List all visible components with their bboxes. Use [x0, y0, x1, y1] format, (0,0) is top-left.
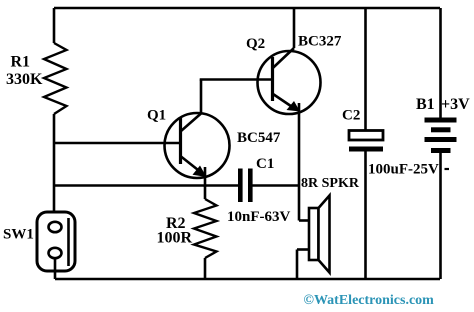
wire R1 top lead — [53, 8, 56, 43]
label BC547 — [237, 130, 281, 146]
svg-text:B1: B1 — [416, 96, 435, 113]
label R1 — [11, 54, 31, 71]
label minus — [445, 168, 450, 170]
label 8R SPKR — [301, 176, 360, 191]
svg-text:BC547: BC547 — [237, 130, 281, 146]
svg-text:Q2: Q2 — [246, 36, 265, 52]
svg-text:100uF-25V: 100uF-25V — [368, 162, 439, 178]
label 10nF-63V — [227, 209, 291, 225]
label SW1 — [3, 227, 34, 243]
svg-text:SW1: SW1 — [3, 227, 34, 243]
wire Q2 emitter up — [293, 8, 296, 48]
resistor R2 — [194, 186, 217, 280]
wire Q1 base lead — [54, 142, 180, 145]
wire emitter/R2/C1 horizontal — [54, 184, 239, 187]
svg-text:C1: C1 — [256, 156, 274, 172]
wire bottom rail — [55, 278, 440, 281]
transistor Q1 — [165, 113, 230, 178]
capacitor C2 — [349, 8, 383, 279]
svg-text:330K: 330K — [6, 71, 43, 88]
svg-text:BC327: BC327 — [298, 34, 342, 50]
wire Q2 collector down to speaker — [298, 103, 301, 221]
battery B1 — [425, 8, 457, 279]
label +3V — [441, 96, 470, 113]
svg-text:+3V: +3V — [441, 96, 470, 113]
capacitor C1 — [238, 169, 299, 203]
svg-text:8R SPKR: 8R SPKR — [301, 176, 360, 191]
label watermark — [304, 293, 435, 308]
label BC327 — [298, 34, 342, 50]
label Q2 — [246, 36, 265, 52]
wire Q1 emitter down — [204, 167, 207, 187]
svg-text:R1: R1 — [11, 54, 31, 71]
resistor R1 — [44, 43, 67, 114]
wire Q1 collector to Q2 base — [200, 78, 272, 81]
svg-text:©WatElectronics.com: ©WatElectronics.com — [304, 293, 435, 308]
speaker SPKR — [297, 196, 330, 280]
label 100R — [157, 230, 193, 247]
label 100uF-25V — [368, 162, 439, 178]
wire R1 bottom lead down to SW1 — [53, 114, 56, 223]
label C1 — [256, 156, 274, 172]
label R2 — [166, 215, 186, 232]
svg-text:C2: C2 — [342, 108, 360, 124]
transistor Q2 — [258, 48, 321, 114]
svg-text:10nF-63V: 10nF-63V — [227, 209, 291, 225]
wire Q1 collector up — [200, 80, 203, 115]
wire top rail — [54, 7, 440, 10]
label 330K — [6, 71, 43, 88]
switch SW1 — [37, 212, 75, 271]
label B1 — [416, 96, 435, 113]
label C2 — [342, 108, 360, 124]
svg-text:Q1: Q1 — [147, 108, 166, 124]
label Q1 — [147, 108, 166, 124]
svg-text:100R: 100R — [157, 230, 193, 247]
wire SW1 bottom lead — [54, 258, 57, 279]
